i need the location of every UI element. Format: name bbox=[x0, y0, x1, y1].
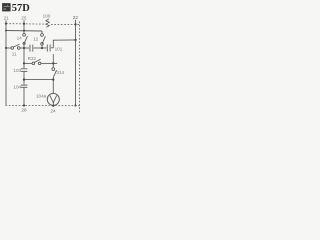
svg-text:101: 101 bbox=[55, 47, 63, 52]
svg-text:25: 25 bbox=[21, 15, 27, 20]
svg-text:100: 100 bbox=[43, 14, 51, 19]
svg-text:12: 12 bbox=[33, 37, 39, 42]
svg-text:314: 314 bbox=[56, 70, 64, 75]
svg-text:21: 21 bbox=[4, 15, 10, 20]
svg-text:103: 103 bbox=[13, 68, 21, 73]
svg-text:28: 28 bbox=[21, 107, 27, 112]
svg-text:104a: 104a bbox=[36, 94, 47, 99]
svg-text:22: 22 bbox=[73, 15, 79, 20]
svg-text:11: 11 bbox=[12, 51, 17, 56]
svg-text:104: 104 bbox=[13, 84, 21, 89]
svg-text:R32: R32 bbox=[28, 56, 37, 61]
svg-text:57D: 57D bbox=[12, 3, 30, 14]
svg-text:24: 24 bbox=[50, 108, 56, 113]
svg-text:14: 14 bbox=[17, 36, 23, 41]
